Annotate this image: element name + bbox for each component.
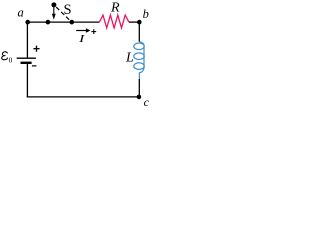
svg-text:b: b [143, 7, 149, 21]
svg-text:R: R [110, 0, 120, 15]
svg-text:S: S [64, 2, 72, 18]
svg-text:a: a [17, 5, 23, 19]
svg-text:0: 0 [9, 56, 13, 65]
svg-text:L: L [125, 51, 134, 66]
svg-text:c: c [144, 95, 150, 109]
svg-text:I: I [78, 33, 87, 45]
